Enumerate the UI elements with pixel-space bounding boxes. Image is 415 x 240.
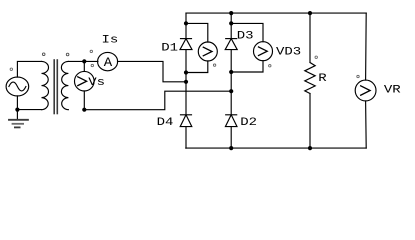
plus marker R	[315, 56, 317, 58]
transformer T1 secondary winding	[61, 61, 68, 109]
wire secondary top to ammeter	[68, 60, 98, 62]
svg-text:D2: D2	[240, 115, 257, 128]
wire source bottom to ground node	[16, 96, 18, 110]
voltmeter across D1	[198, 42, 217, 61]
plus marker D1 probe	[213, 64, 215, 66]
left bridge leg lower	[185, 127, 187, 149]
plus marker ammeter	[90, 50, 92, 52]
left bridge leg upper	[185, 13, 187, 38]
top rail	[186, 12, 366, 14]
svg-text:A: A	[104, 56, 113, 71]
resistor R	[305, 63, 315, 94]
svg-text:VR: VR	[384, 83, 401, 96]
wire VR leg lower	[365, 101, 368, 148]
plus marker VD3	[269, 65, 271, 67]
node left leg probe tap	[184, 21, 188, 25]
node left leg AC input	[184, 80, 188, 84]
svg-text:D1: D1	[161, 41, 178, 54]
voltmeter VR	[355, 80, 376, 101]
node right leg bottom rail	[229, 146, 233, 150]
bottom rail	[186, 147, 366, 149]
svg-text:Is: Is	[102, 33, 119, 46]
wire source top to transformer primary top	[17, 61, 41, 77]
left bridge leg middle	[185, 50, 187, 115]
wire VD3 top tap	[231, 23, 263, 41]
node ground junction	[15, 108, 19, 112]
svg-text:D4: D4	[157, 115, 174, 128]
wire ground node to transformer primary bottom	[17, 109, 41, 111]
wire D1 probe bottom tap	[186, 61, 208, 73]
node R bottom rail	[308, 146, 312, 150]
ammeter Is	[98, 52, 118, 70]
wire Vs bottom stub	[83, 91, 85, 110]
node R top rail	[308, 11, 312, 15]
polarity dot secondary	[66, 53, 69, 56]
right bridge leg middle	[230, 50, 232, 115]
wire Vs top stub	[83, 61, 85, 71]
plus marker of source	[10, 68, 12, 70]
node left leg probe bottom	[184, 70, 188, 74]
wire ammeter to left bridge leg	[118, 61, 187, 81]
node right leg AC input	[229, 89, 233, 93]
resistor R leg upper	[309, 13, 311, 62]
wire secondary bottom to right bridge leg	[84, 91, 231, 110]
diode D2	[225, 115, 237, 127]
transformer core	[54, 60, 57, 114]
diode D1	[180, 39, 192, 50]
svg-text:R: R	[318, 71, 327, 84]
AC source V1	[6, 77, 29, 96]
ground	[9, 110, 28, 128]
svg-text:VD3: VD3	[276, 45, 301, 58]
plus marker Vs	[91, 64, 93, 66]
right bridge leg lower	[230, 127, 232, 149]
voltmeter Vs	[75, 71, 95, 91]
wire VD3 bottom tap	[231, 61, 263, 72]
wire VR leg upper	[365, 13, 368, 80]
right bridge leg upper	[230, 13, 232, 38]
diode D4	[180, 115, 192, 127]
resistor R leg lower	[309, 94, 311, 149]
node right leg top rail	[229, 11, 233, 15]
node right leg probe bottom	[229, 70, 233, 74]
diode D3	[225, 39, 237, 50]
plus marker VR	[357, 75, 359, 77]
transformer T1 primary winding	[42, 61, 49, 109]
voltmeter VD3	[254, 42, 273, 61]
polarity dot primary	[42, 53, 45, 56]
node right leg probe tap	[229, 21, 233, 25]
node secondary top / Vs tap	[82, 59, 86, 63]
svg-text:D3: D3	[237, 29, 254, 42]
wire D1 probe top tap	[186, 23, 208, 42]
svg-text:Vs: Vs	[88, 75, 105, 88]
node secondary bottom / Vs tap	[82, 108, 86, 112]
